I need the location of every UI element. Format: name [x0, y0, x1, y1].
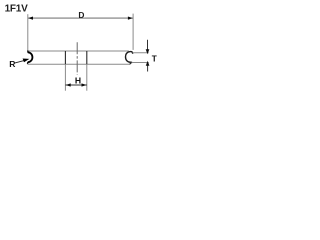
dimension D: left arrowhead — [28, 17, 33, 20]
dimension T: extension line bottom — [132, 62, 149, 64]
leader arrowhead (points up-right at arc) — [23, 59, 30, 63]
dimension T: upper arrowhead (points down) — [146, 49, 150, 54]
svg-text:H: H — [75, 75, 81, 85]
svg-text:D: D — [78, 10, 84, 20]
dimension T: upper arrow line — [147, 40, 149, 50]
dimension T: lower arrowhead (points up) — [146, 61, 150, 66]
dimension H: dimension line — [65, 84, 86, 86]
right rim: radius layer C-profile — [126, 52, 133, 63]
leader line from R — [14, 60, 25, 63]
dimension H: left arrowhead — [66, 83, 71, 86]
right rim: bottom corner connector to face — [130, 63, 132, 65]
left rim: bottom corner curl — [26, 62, 28, 64]
dimension T: lower arrow line — [147, 65, 149, 72]
dimension D: right arrowhead — [128, 17, 133, 20]
svg-text:T: T — [152, 55, 157, 64]
svg-text:1F1V: 1F1V — [5, 4, 28, 15]
dimension D: extension line right — [132, 14, 134, 50]
dimension H: right arrowhead — [82, 83, 87, 86]
dimension H: extension line left — [64, 64, 66, 91]
dimension D: dimension line — [28, 17, 133, 19]
bore line right (hole edge) — [86, 51, 88, 64]
dimension H: extension line right — [86, 64, 88, 91]
left rim: vertical edge segment top — [27, 50, 29, 52]
centre line (dash-dot) — [76, 42, 78, 75]
svg-text:R: R — [9, 59, 16, 69]
dimension D: extension line left — [27, 14, 29, 51]
bore line left (hole edge) — [64, 51, 66, 64]
wheel body: top face line — [28, 50, 129, 52]
wheel body: bottom face line — [28, 63, 130, 65]
left rim: radius arc (bulging right) — [28, 52, 33, 62]
label D — [78, 12, 85, 18]
dimension T: extension line top — [133, 52, 149, 54]
